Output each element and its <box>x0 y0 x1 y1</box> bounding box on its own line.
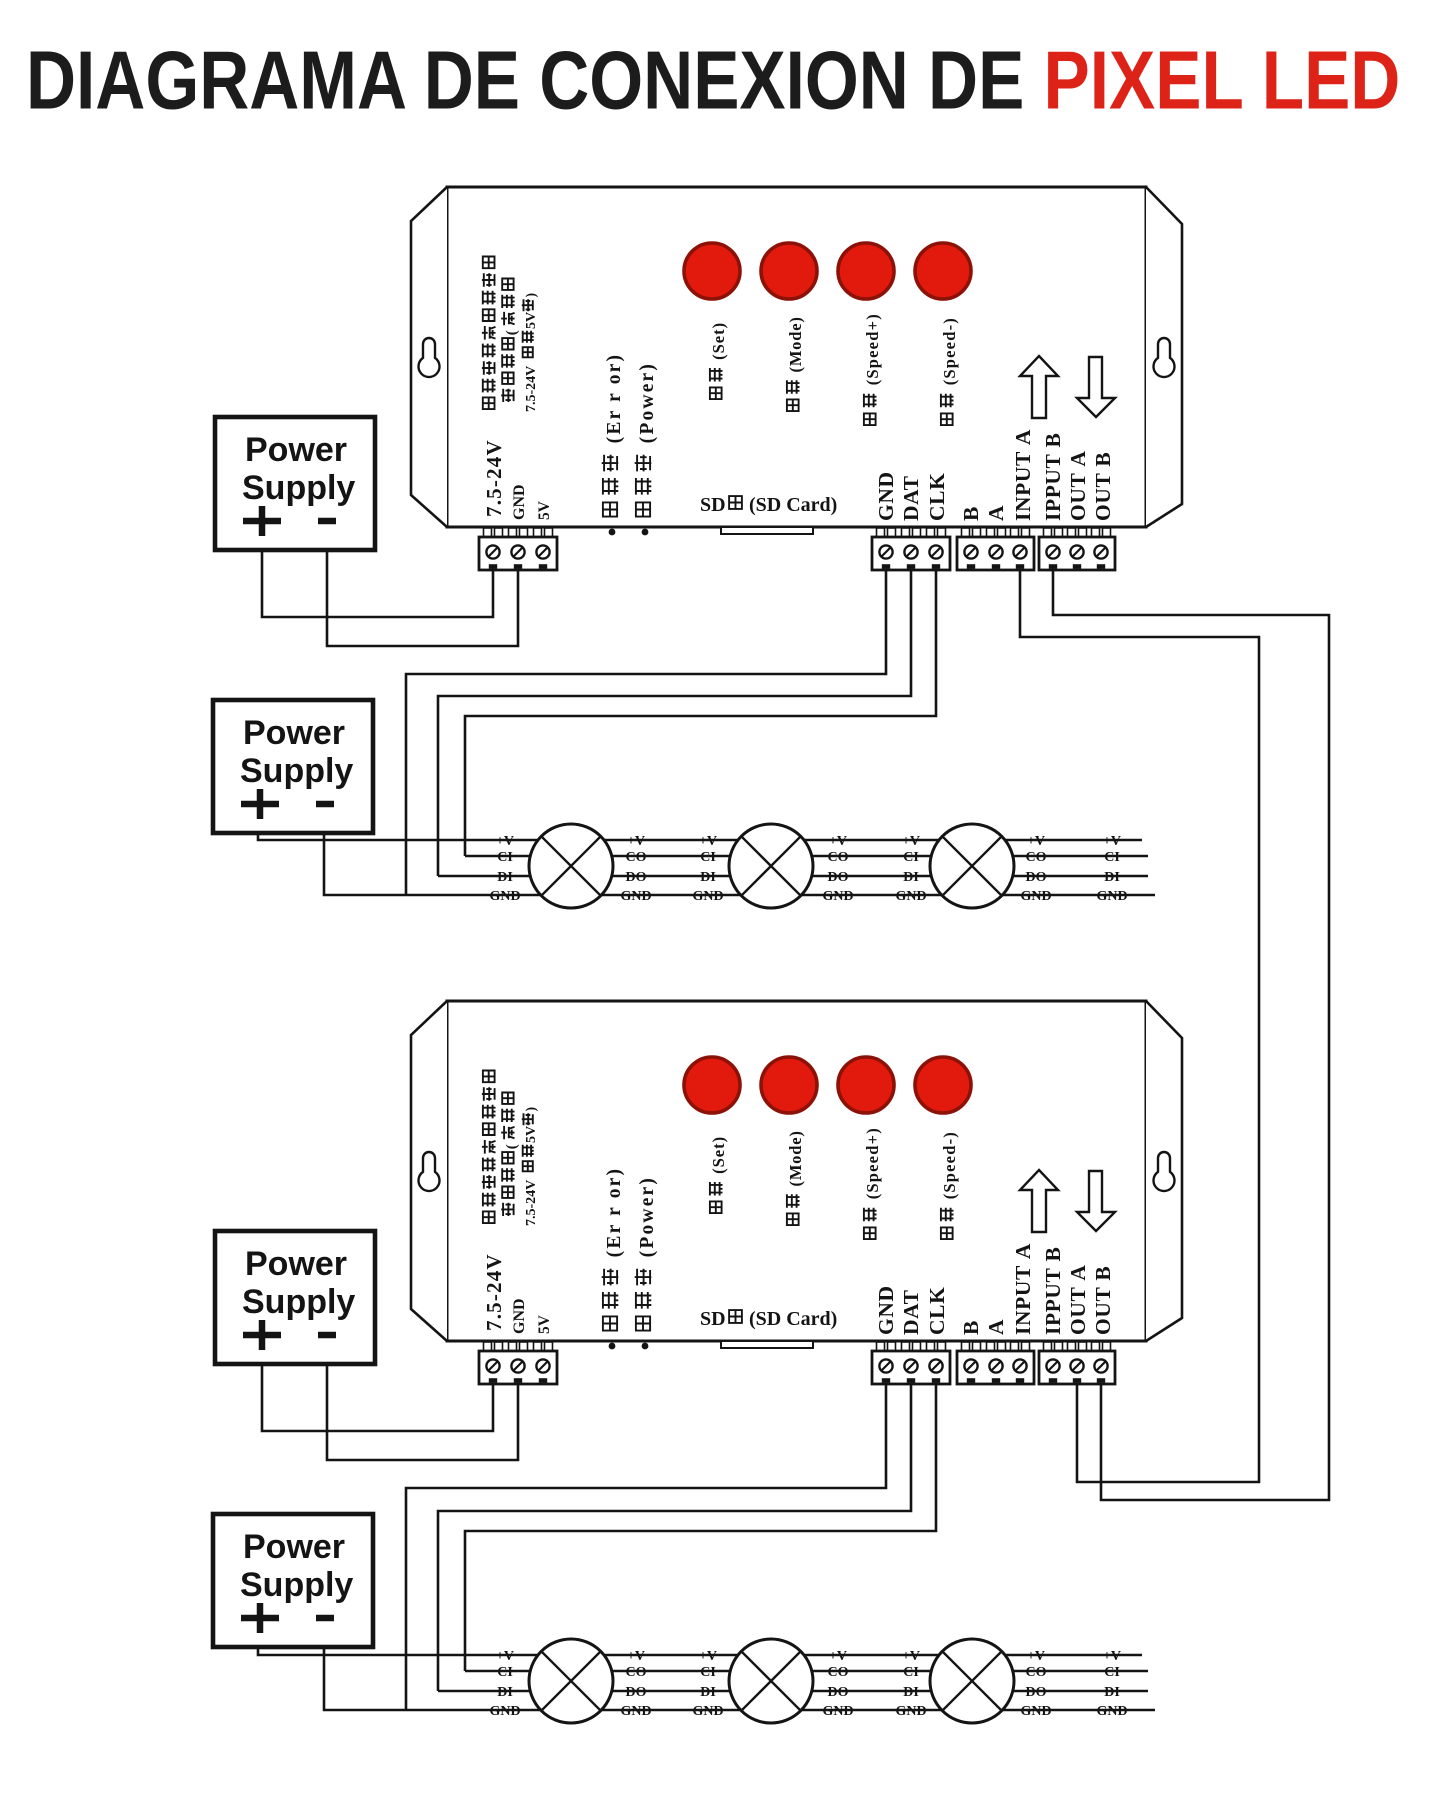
svg-text:CO: CO <box>828 850 849 865</box>
pixel lamp strip1-1 <box>529 824 613 908</box>
terminal block bus U1 screws <box>964 545 977 558</box>
svg-text:GND: GND <box>511 1298 528 1334</box>
svg-text:CI: CI <box>700 1665 716 1680</box>
svg-text:GND: GND <box>895 889 926 904</box>
label Speed- U2 <box>940 1131 959 1239</box>
svg-text:GND: GND <box>1096 1704 1127 1719</box>
power supply PS4 plus <box>241 1603 279 1633</box>
svg-text:DO: DO <box>828 1685 849 1700</box>
svg-text:GND: GND <box>692 889 723 904</box>
svg-text:+V: +V <box>1103 834 1121 849</box>
wire U1 IPPUT B to U2 OUT B <box>1053 570 1329 1500</box>
wire CI bus strip1 <box>465 855 1148 858</box>
label 7.5-24V U2 <box>482 1253 506 1331</box>
svg-text:+V: +V <box>902 834 920 849</box>
button Speed+ U2 <box>838 1057 894 1113</box>
note line1 U1 <box>482 257 496 410</box>
terminal block power U1 notches <box>489 564 497 569</box>
wire PS3 minus to GND U2 <box>327 1364 518 1460</box>
controller U1 body <box>447 187 1146 527</box>
svg-text:+V: +V <box>1103 1649 1121 1664</box>
controller U1 left mounting flange <box>411 187 447 527</box>
svg-text:(Set): (Set) <box>709 322 728 365</box>
label GND power U2 <box>511 1298 528 1334</box>
svg-text:(Er r or): (Er r or) <box>604 1167 625 1265</box>
svg-text:(Power): (Power) <box>637 362 658 451</box>
pixel lamp strip1-2 <box>729 824 813 908</box>
svg-text:(Speed-): (Speed-) <box>940 317 959 391</box>
svg-text:A: A <box>984 505 1008 521</box>
power supply PS2 box <box>213 700 373 833</box>
label CLK U1 <box>925 473 949 521</box>
svg-text:+V: +V <box>699 1649 717 1664</box>
pixel lamp strip2-2 <box>729 1639 813 1723</box>
power supply PS1 box <box>215 417 375 550</box>
SD card slot U2 <box>721 1341 813 1348</box>
svg-text:DO: DO <box>626 1685 647 1700</box>
pixel lamp strip2-1 <box>529 1639 613 1723</box>
terminal block data U2 screws <box>879 1359 892 1372</box>
power supply PS1 minus <box>318 518 336 525</box>
note line2 U1 <box>501 279 520 403</box>
power supply PS3 plus <box>243 1320 281 1350</box>
svg-text:CI: CI <box>903 850 919 865</box>
svg-text:GND: GND <box>1096 889 1127 904</box>
svg-text:5V: 5V <box>524 312 539 329</box>
svg-text:5V: 5V <box>536 1314 553 1334</box>
arrow up U1 <box>1020 356 1058 418</box>
terminal block bus U1 notches <box>967 564 975 569</box>
svg-text:+V: +V <box>699 834 717 849</box>
terminal block power U1 <box>479 537 557 570</box>
label OUT B U2 <box>1091 1266 1115 1335</box>
label power LED U1 <box>635 362 658 517</box>
svg-text:Power: Power <box>243 714 345 752</box>
svg-text:CO: CO <box>626 1665 647 1680</box>
label A U1 <box>984 505 1008 521</box>
terminal block data U2 teeth <box>877 1342 885 1351</box>
button Speed- U2 <box>915 1057 971 1113</box>
svg-text:(: ( <box>504 1144 520 1149</box>
terminal block out U2 screws <box>1046 1359 1059 1372</box>
wire DI bus strip1 <box>438 875 1148 878</box>
svg-text:A: A <box>984 1319 1008 1335</box>
terminal block data U1 <box>872 537 950 570</box>
label Speed+ U1 <box>863 313 882 425</box>
power supply PS3 minus <box>318 1332 336 1339</box>
svg-text:OUT B: OUT B <box>1091 1266 1115 1335</box>
terminal block power U2 notches <box>489 1378 497 1383</box>
error LED dot U1 <box>609 529 616 536</box>
svg-text:(: ( <box>504 330 520 335</box>
svg-text:GND: GND <box>822 1704 853 1719</box>
svg-text:DI: DI <box>497 1685 513 1700</box>
arrow down U1 <box>1077 357 1115 417</box>
label IPPUT B U2 <box>1041 1247 1065 1335</box>
label Mode U1 <box>786 316 805 411</box>
power supply PS2 plus <box>241 789 279 819</box>
label 7.5-24V U1 <box>482 439 506 517</box>
svg-text:CI: CI <box>903 1665 919 1680</box>
label 5V U1 <box>536 500 553 520</box>
svg-text:OUT A: OUT A <box>1066 451 1090 522</box>
svg-text:SD: SD <box>700 494 726 516</box>
svg-text:+V: +V <box>627 1649 645 1664</box>
SD card slot U1 <box>721 527 813 534</box>
title text <box>26 35 1400 127</box>
terminal block data U2 <box>872 1351 950 1384</box>
terminal block out U2 <box>1039 1351 1115 1384</box>
svg-text:+V: +V <box>902 1649 920 1664</box>
svg-text:DI: DI <box>497 870 513 885</box>
label error LED U2 <box>602 1167 625 1331</box>
terminal block bus U1 <box>957 537 1034 570</box>
svg-text:+V: +V <box>1027 1649 1045 1664</box>
wire PS1 minus to GND <box>327 550 518 646</box>
svg-text:IPPUT B: IPPUT B <box>1041 433 1065 521</box>
svg-text:GND: GND <box>874 1285 898 1335</box>
wire U1 DAT to strip1 DI <box>438 570 911 876</box>
label Set U2 <box>709 1136 728 1213</box>
wire CI bus strip2 <box>465 1670 1148 1673</box>
label OUT A U2 <box>1066 1265 1090 1336</box>
svg-text:CI: CI <box>700 850 716 865</box>
svg-text:Supply: Supply <box>242 469 355 507</box>
controller U2 left mounting flange <box>411 1001 447 1341</box>
terminal block out U2 teeth <box>1044 1342 1052 1351</box>
label 5V U2 <box>536 1314 553 1334</box>
arrow down U2 <box>1077 1171 1115 1231</box>
note line3 U1 <box>522 293 539 413</box>
svg-text:GND: GND <box>692 1704 723 1719</box>
label GND U2 <box>874 1285 898 1335</box>
svg-text:CO: CO <box>828 1665 849 1680</box>
svg-text:+V: +V <box>829 834 847 849</box>
controller U1 right mounting flange <box>1146 187 1182 527</box>
svg-text:(Speed+): (Speed+) <box>863 1127 882 1205</box>
svg-text:DI: DI <box>1104 1685 1120 1700</box>
svg-text:B: B <box>959 1320 983 1335</box>
controller U2 left keyhole <box>419 1152 440 1191</box>
label OUT B U1 <box>1091 452 1115 521</box>
note line2 U2 <box>501 1093 520 1217</box>
power supply PS4 box <box>213 1514 373 1647</box>
label error LED U1 <box>602 353 625 517</box>
svg-text:GND: GND <box>1020 1704 1051 1719</box>
svg-text:CI: CI <box>1104 1665 1120 1680</box>
svg-text:+V: +V <box>1027 834 1045 849</box>
label IPPUT B U1 <box>1041 433 1065 521</box>
button Speed- U1 <box>915 243 971 299</box>
svg-text:Power: Power <box>243 1528 345 1566</box>
wire U2 CLK to strip2 CI <box>465 1384 936 1671</box>
svg-text:5V: 5V <box>536 500 553 520</box>
svg-text:+V: +V <box>829 1649 847 1664</box>
svg-text:GND: GND <box>822 889 853 904</box>
label B U2 <box>959 1320 983 1335</box>
terminal block data U1 screws <box>879 545 892 558</box>
svg-text:DI: DI <box>1104 870 1120 885</box>
svg-text:(Er r or): (Er r or) <box>604 353 625 451</box>
terminal block bus U2 notches <box>967 1378 975 1383</box>
svg-text:7.5-24V: 7.5-24V <box>524 366 539 412</box>
error LED dot U2 <box>609 1343 616 1350</box>
terminal block data U1 teeth <box>877 528 885 537</box>
wire PS1 plus to 7.5-24V <box>262 550 493 617</box>
wire +V bus strip1 <box>258 831 1142 840</box>
svg-text:(SD Card): (SD Card) <box>749 494 837 516</box>
wire U1 INPUT A to U2 OUT A <box>1020 570 1259 1482</box>
svg-text:CLK: CLK <box>925 473 949 521</box>
svg-text:DI: DI <box>700 870 716 885</box>
power supply PS4 minus <box>316 1615 334 1622</box>
wire DI bus strip2 <box>438 1690 1148 1693</box>
svg-text:DO: DO <box>626 870 647 885</box>
svg-text:GND: GND <box>489 889 520 904</box>
label Speed+ U2 <box>863 1127 882 1239</box>
power supply PS3 box <box>215 1231 375 1364</box>
svg-text:DI: DI <box>903 1685 919 1700</box>
svg-text:GND: GND <box>1020 889 1051 904</box>
button Set U1 <box>684 243 740 299</box>
svg-text:Supply: Supply <box>242 1283 355 1321</box>
power supply PS2 minus <box>316 801 334 808</box>
pixel lamp strip1-3 <box>930 824 1014 908</box>
terminal block bus U1 teeth <box>962 528 970 537</box>
label Speed- U1 <box>940 317 959 425</box>
label GND power U1 <box>511 484 528 520</box>
svg-text:DAT: DAT <box>899 475 923 521</box>
terminal block power U2 <box>479 1351 557 1384</box>
svg-text:(Speed+): (Speed+) <box>863 313 882 391</box>
wire U1 CLK to strip1 CI <box>465 570 936 856</box>
svg-text:GND: GND <box>874 471 898 521</box>
label B U1 <box>959 506 983 521</box>
label A U2 <box>984 1319 1008 1335</box>
svg-text:DO: DO <box>828 870 849 885</box>
terminal block out U1 notches <box>1049 564 1057 569</box>
wire GND bus strip1 <box>324 831 1155 895</box>
svg-text:5V: 5V <box>524 1126 539 1143</box>
terminal block power U2 screws <box>486 1359 499 1372</box>
label INPUT A U1 <box>1011 429 1035 521</box>
terminal block power U2 teeth <box>484 1342 492 1351</box>
svg-text:CO: CO <box>1026 1665 1047 1680</box>
svg-text:DAT: DAT <box>899 1289 923 1335</box>
power supply PS1 plus <box>243 506 281 536</box>
svg-text:OUT B: OUT B <box>1091 452 1115 521</box>
controller U2 right mounting flange <box>1146 1001 1182 1341</box>
note line1 U2 <box>482 1071 496 1224</box>
pixel lamp strip2-3 <box>930 1639 1014 1723</box>
label DAT U1 <box>899 475 923 521</box>
svg-text:SD: SD <box>700 1308 726 1330</box>
svg-text:GND: GND <box>620 889 651 904</box>
terminal block bus U2 screws <box>964 1359 977 1372</box>
svg-text:7.5-24V: 7.5-24V <box>482 439 506 517</box>
svg-text:DO: DO <box>1026 870 1047 885</box>
svg-text:GND: GND <box>511 484 528 520</box>
svg-text:GND: GND <box>489 1704 520 1719</box>
terminal block out U1 teeth <box>1044 528 1052 537</box>
svg-text:+V: +V <box>496 834 514 849</box>
svg-text:(Set): (Set) <box>709 1136 728 1179</box>
svg-text:DI: DI <box>903 870 919 885</box>
button Mode U2 <box>761 1057 817 1113</box>
controller U2 right keyhole <box>1154 1152 1175 1191</box>
svg-text:Supply: Supply <box>240 1566 353 1604</box>
svg-text:7.5-24V: 7.5-24V <box>524 1180 539 1226</box>
label power LED U2 <box>635 1176 658 1331</box>
wire +V bus strip2 <box>258 1646 1142 1655</box>
wire U1 GND to strip1 <box>406 570 886 895</box>
label DAT U2 <box>899 1289 923 1335</box>
note line3 U2 <box>522 1107 539 1227</box>
terminal block power U1 teeth <box>484 528 492 537</box>
label Mode U2 <box>786 1130 805 1225</box>
terminal block out U2 notches <box>1049 1378 1057 1383</box>
button Speed+ U1 <box>838 243 894 299</box>
terminal block power U1 screws <box>486 545 499 558</box>
terminal block bus U2 teeth <box>962 1342 970 1351</box>
terminal block out U1 <box>1039 537 1115 570</box>
power LED dot U1 <box>642 529 649 536</box>
svg-text:CO: CO <box>626 850 647 865</box>
label OUT A U1 <box>1066 451 1090 522</box>
terminal block data U1 notches <box>882 564 890 569</box>
svg-text:+V: +V <box>496 1649 514 1664</box>
svg-text:(Mode): (Mode) <box>786 1130 805 1191</box>
label CLK U2 <box>925 1287 949 1335</box>
button Set U2 <box>684 1057 740 1113</box>
svg-text:CI: CI <box>1104 850 1120 865</box>
svg-text:CO: CO <box>1026 850 1047 865</box>
svg-text:7.5-24V: 7.5-24V <box>482 1253 506 1331</box>
button Mode U1 <box>761 243 817 299</box>
svg-text:IPPUT B: IPPUT B <box>1041 1247 1065 1335</box>
svg-text:(Mode): (Mode) <box>786 316 805 377</box>
svg-text:INPUT A: INPUT A <box>1011 429 1035 521</box>
svg-text:(Speed-): (Speed-) <box>940 1131 959 1205</box>
label Set U1 <box>709 322 728 399</box>
controller U2 body <box>447 1001 1146 1341</box>
terminal block out U1 screws <box>1046 545 1059 558</box>
svg-text:DIAGRAMA DE CONEXION DE PIXEL: DIAGRAMA DE CONEXION DE PIXEL LED <box>26 35 1400 127</box>
terminal block bus U2 <box>957 1351 1034 1384</box>
svg-text:CI: CI <box>497 1665 513 1680</box>
svg-text:CLK: CLK <box>925 1287 949 1335</box>
svg-text:): ) <box>524 293 539 298</box>
svg-text:): ) <box>524 1107 539 1112</box>
wire U2 GND to strip2 <box>406 1384 886 1710</box>
terminal block data U2 notches <box>882 1378 890 1383</box>
svg-text:INPUT A: INPUT A <box>1011 1243 1035 1335</box>
svg-text:B: B <box>959 506 983 521</box>
svg-text:DI: DI <box>700 1685 716 1700</box>
svg-text:GND: GND <box>620 1704 651 1719</box>
svg-text:(Power): (Power) <box>637 1176 658 1265</box>
svg-text:+V: +V <box>627 834 645 849</box>
controller U1 left keyhole <box>419 338 440 377</box>
svg-text:Power: Power <box>245 431 347 469</box>
svg-text:DO: DO <box>1026 1685 1047 1700</box>
label GND U1 <box>874 471 898 521</box>
arrow up U2 <box>1020 1170 1058 1232</box>
svg-text:Power: Power <box>245 1245 347 1283</box>
svg-text:GND: GND <box>895 1704 926 1719</box>
wire GND bus strip2 <box>324 1646 1155 1710</box>
wire PS3 plus to 7.5-24V U2 <box>262 1364 493 1431</box>
label INPUT A U2 <box>1011 1243 1035 1335</box>
svg-text:Supply: Supply <box>240 752 353 790</box>
svg-text:OUT A: OUT A <box>1066 1265 1090 1336</box>
power LED dot U2 <box>642 1343 649 1350</box>
controller U1 right keyhole <box>1154 338 1175 377</box>
wire U2 DAT to strip2 DI <box>438 1384 911 1691</box>
svg-text:CI: CI <box>497 850 513 865</box>
svg-text:(SD Card): (SD Card) <box>749 1308 837 1330</box>
